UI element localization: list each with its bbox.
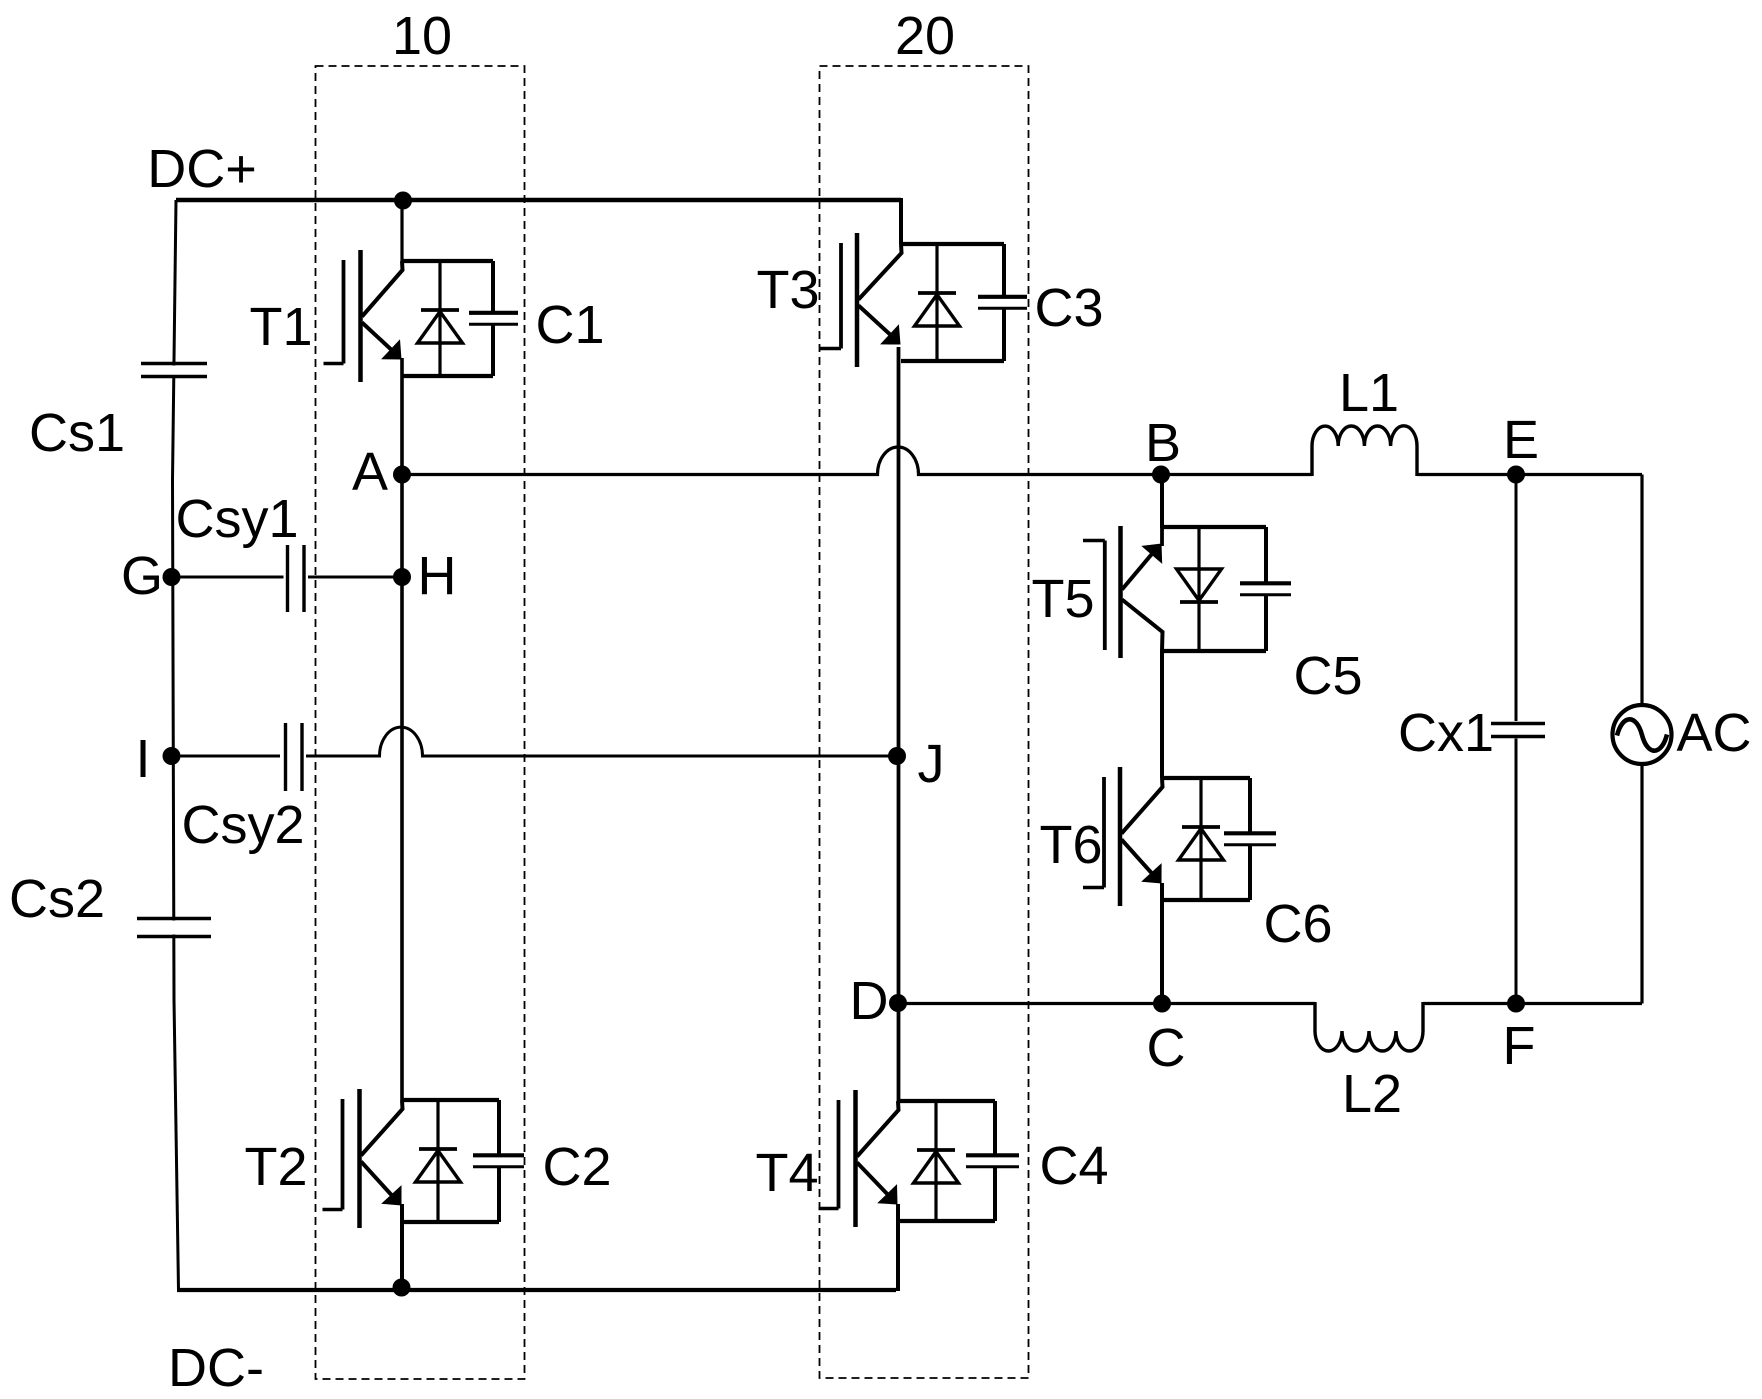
svg-text:AC: AC	[1676, 703, 1751, 763]
wire A-H-T2 vertical (T1 emitter down through A, H to T2 collector)	[400, 358, 404, 1100]
svg-text:A: A	[352, 442, 388, 502]
svg-text:DC-: DC-	[168, 1338, 264, 1398]
node H dot	[393, 568, 411, 586]
svg-text:E: E	[1503, 410, 1539, 470]
svg-text:DC+: DC+	[147, 139, 257, 199]
svg-text:C2: C2	[542, 1137, 611, 1197]
node T2 emitter junction dot on DC- rail	[393, 1279, 411, 1297]
svg-text:Csy1: Csy1	[175, 489, 298, 549]
wire I to Csy2	[174, 755, 280, 758]
capacitor Cx1 plates	[1491, 722, 1545, 726]
wire T3 collector bend from DC+ rail	[899, 200, 902, 244]
node B dot	[1152, 466, 1170, 484]
wire A to B with crossover hump at x=898	[402, 447, 1312, 475]
wire AC bottom lead	[1640, 765, 1643, 1004]
wire E down to Cx1	[1515, 475, 1518, 722]
transistor T2	[323, 1089, 525, 1228]
wire T3 emitter down to T4 (through J and D)	[897, 347, 901, 1101]
svg-text:C6: C6	[1263, 894, 1332, 954]
node E dot	[1507, 466, 1525, 484]
svg-text:Cs1: Cs1	[29, 403, 125, 463]
svg-text:Cs2: Cs2	[9, 869, 105, 929]
svg-text:C4: C4	[1039, 1136, 1108, 1196]
wire T5 collector to T6 collector	[1160, 651, 1164, 778]
node C dot	[1153, 995, 1171, 1013]
transistor T5 (flipped IGBT, emitter up)	[1083, 526, 1291, 658]
svg-text:D: D	[850, 971, 889, 1031]
inductor L2	[1315, 1002, 1423, 1051]
svg-text:T4: T4	[755, 1143, 818, 1203]
capacitor Csy1 plates	[286, 545, 289, 612]
node F dot	[1507, 995, 1525, 1013]
transistor T4	[819, 1090, 1020, 1227]
wire T2 emitter to DC- rail	[400, 1204, 404, 1290]
svg-text:T5: T5	[1031, 569, 1094, 629]
wire L2 to F to AC corner	[1423, 1002, 1642, 1005]
wire DC+ top rail	[176, 198, 901, 203]
svg-text:10: 10	[392, 6, 452, 66]
svg-text:G: G	[121, 546, 163, 606]
wire D to C to L2	[898, 1002, 1315, 1005]
svg-text:C1: C1	[535, 295, 604, 355]
wire B down to T5	[1160, 475, 1164, 529]
svg-text:L1: L1	[1339, 363, 1399, 423]
svg-text:L2: L2	[1342, 1064, 1402, 1124]
capacitor Cs1	[141, 364, 207, 377]
wire T4 emitter to DC- rail	[896, 1204, 900, 1291]
wire AC top lead	[1640, 475, 1643, 705]
wire left DC rail (vertical)	[173, 200, 179, 1290]
svg-text:C: C	[1147, 1018, 1186, 1078]
svg-text:Cx1: Cx1	[1398, 703, 1494, 763]
node D dot	[889, 994, 907, 1012]
wire T1 collector from DC+ node	[400, 200, 403, 261]
transistor T1 (IGBT with antiparallel diode)	[324, 250, 519, 382]
wire Cx1 down to F	[1515, 739, 1518, 1004]
svg-text:T1: T1	[249, 297, 312, 357]
wire T6 emitter down to C	[1160, 883, 1164, 1004]
svg-text:J: J	[918, 734, 945, 794]
svg-text:20: 20	[895, 6, 955, 66]
wire DC- bottom rail	[177, 1288, 896, 1292]
node J dot	[888, 747, 906, 765]
svg-text:T6: T6	[1039, 815, 1102, 875]
node I dot	[163, 747, 181, 765]
transistor T3	[819, 233, 1027, 367]
AC source sine wave	[1617, 719, 1667, 750]
svg-text:Csy2: Csy2	[181, 795, 304, 855]
svg-text:F: F	[1503, 1016, 1536, 1076]
wire Csy1 to H	[308, 576, 402, 579]
capacitor Cs2	[137, 919, 211, 937]
node DC+ junction dot	[394, 192, 412, 210]
svg-text:I: I	[135, 729, 150, 789]
inductor L1	[1312, 426, 1417, 476]
node G dot	[163, 568, 181, 586]
svg-text:T2: T2	[244, 1137, 307, 1197]
wire Csy2 to J with crossover hump at x=402	[306, 727, 897, 756]
transistor T6	[1083, 767, 1276, 906]
svg-text:C5: C5	[1293, 646, 1362, 706]
dashed box leg 20	[820, 66, 1029, 1378]
svg-text:B: B	[1145, 413, 1181, 473]
svg-text:H: H	[418, 546, 457, 606]
wire L1 to E to AC corner	[1417, 473, 1642, 476]
node A dot	[393, 466, 411, 484]
svg-text:C3: C3	[1034, 278, 1103, 338]
svg-text:T3: T3	[756, 260, 819, 320]
AC source circle	[1613, 705, 1672, 764]
capacitor Csy2 plates	[284, 723, 287, 791]
dashed box leg 10	[316, 66, 525, 1379]
wire G to Csy1	[174, 576, 284, 579]
